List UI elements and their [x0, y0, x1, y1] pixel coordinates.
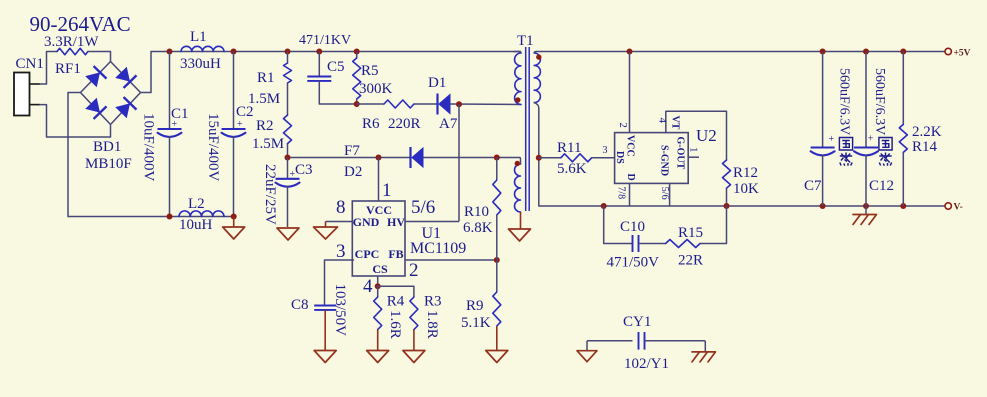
wire U2 pin2 vertical	[629, 52, 631, 133]
resistor R5 wire top	[356, 52, 358, 59]
wire R11 lead	[539, 157, 561, 159]
capacitor C1 wire bottom	[169, 136, 171, 217]
svg-text:DS: DS	[614, 151, 625, 164]
transistor U2 box	[615, 133, 689, 184]
svg-text:1.8R: 1.8R	[424, 310, 440, 339]
wire CY1 left	[587, 340, 633, 342]
ground symbol under C2 stub	[233, 217, 235, 228]
svg-text:C8: C8	[291, 297, 309, 313]
wire CY1 right	[645, 340, 706, 342]
junction dot R14 bottom	[900, 203, 906, 209]
capacitor C7 wire bottom	[822, 155, 824, 207]
chassis ground CY1 right	[692, 352, 716, 362]
resistor R4 wire bottom	[377, 330, 379, 351]
svg-text:+5V: +5V	[954, 49, 971, 59]
svg-text:C5: C5	[327, 59, 345, 75]
svg-text:330uH: 330uH	[180, 56, 221, 72]
junction dot FB node	[494, 257, 500, 263]
capacitor C1	[158, 128, 182, 130]
wire CS to R3	[378, 286, 414, 297]
resistor R3	[410, 297, 418, 330]
transformer T1 core	[525, 47, 527, 211]
svg-text:10uH: 10uH	[179, 217, 213, 233]
junction dot D1 out	[456, 101, 462, 107]
svg-text:2: 2	[617, 122, 629, 128]
svg-text:102/Y1: 102/Y1	[624, 356, 669, 372]
svg-text:D1: D1	[428, 75, 446, 91]
capacitor C2 wire bottom	[233, 136, 235, 217]
svg-text:471/50V: 471/50V	[607, 255, 660, 271]
capacitor C10	[632, 235, 634, 252]
capacitor C5	[307, 76, 331, 78]
svg-text:15uF/400V: 15uF/400V	[205, 113, 221, 182]
svg-text:560uF/6.3V: 560uF/6.3V	[872, 68, 887, 135]
junction dot C5 top	[316, 49, 322, 55]
svg-text:3.3R/1W: 3.3R/1W	[44, 34, 99, 50]
junction dot L2 left	[167, 214, 173, 220]
resistor R5	[353, 58, 361, 99]
resistor R9 wire bottom	[496, 326, 498, 351]
wire C10 branch	[604, 206, 633, 244]
svg-text:R15: R15	[678, 225, 703, 241]
wire U2 pin7/8 vertical	[629, 183, 631, 206]
label C12 value CJK solid	[879, 138, 892, 151]
transformer T1 secondary bottom lead	[534, 103, 539, 206]
junction dot R10 top	[494, 155, 500, 161]
junction dot C2 top	[231, 49, 237, 55]
wire D2 to aux winding	[424, 157, 521, 159]
junction dot R5 bottom	[354, 101, 360, 107]
wire U2 pin5/6 vertical	[669, 183, 671, 206]
svg-text:R1: R1	[257, 70, 275, 86]
capacitor C7 wire top	[822, 52, 824, 148]
op-amp U1 box	[352, 201, 405, 276]
capacitor C5 wire top	[318, 52, 320, 77]
capacitor C8	[314, 305, 336, 307]
wire U2 pin4 to R12 top	[666, 111, 727, 160]
capacitor C1 wire top	[169, 52, 171, 130]
svg-text:+: +	[290, 169, 296, 180]
capacitor C2	[222, 128, 246, 130]
svg-text:C3: C3	[295, 162, 313, 178]
capacitor C3 wire bottom	[287, 186, 289, 227]
resistor RF1	[57, 48, 88, 54]
wire C10 to R15	[639, 243, 666, 245]
svg-text:C7: C7	[804, 178, 822, 194]
wire R15 up to rail	[700, 206, 727, 244]
svg-text:5/6: 5/6	[659, 187, 670, 200]
svg-text:A7: A7	[439, 116, 458, 132]
svg-text:5.6K: 5.6K	[557, 161, 587, 177]
junction dot C7 bottom	[820, 203, 826, 209]
junction dot U1 VCC	[376, 155, 382, 161]
capacitor C7	[811, 146, 835, 148]
inductor L1	[181, 46, 224, 51]
wire U1 pin1 vertical	[378, 158, 380, 202]
svg-text:RF1: RF1	[55, 61, 81, 77]
junction dot R15 right	[724, 203, 730, 209]
svg-text:VCC: VCC	[625, 135, 636, 157]
svg-text:BD1: BD1	[93, 139, 121, 155]
svg-text:4: 4	[657, 118, 669, 124]
junction dot L2 right	[231, 214, 237, 220]
svg-text:L1: L1	[190, 29, 207, 45]
transformer T1 aux bottom lead	[520, 212, 522, 229]
svg-text:1.6R: 1.6R	[387, 310, 403, 339]
junction dot R5 top	[354, 49, 360, 55]
svg-text:C12: C12	[869, 178, 894, 194]
junction dot R11 tap	[536, 155, 542, 161]
transformer T1 secondary top lead	[534, 52, 542, 54]
terminal +5V	[945, 48, 951, 54]
capacitor C12	[854, 146, 878, 148]
resistor R11	[561, 154, 592, 162]
resistor R4 wire top	[377, 286, 379, 297]
svg-text:1.5M: 1.5M	[248, 91, 280, 107]
wire CN1 pin2 to bridge bottom	[40, 105, 111, 137]
junction dot F7 at R2	[285, 155, 291, 161]
wire V- rail	[539, 205, 945, 207]
capacitor C12 wire bottom	[865, 155, 867, 207]
svg-text:4: 4	[363, 276, 373, 297]
svg-text:5/6: 5/6	[411, 197, 435, 218]
svg-text:MC1109: MC1109	[410, 240, 466, 257]
svg-text:S-GND: S-GND	[659, 145, 670, 176]
svg-text:220R: 220R	[388, 116, 421, 132]
junction dot R14 top	[900, 49, 906, 55]
transformer T1 aux top lead	[519, 158, 522, 165]
ground symbol under R4	[367, 351, 389, 363]
transformer T1 primary winding	[515, 53, 521, 105]
resistor R6	[384, 100, 414, 108]
terminal V-	[945, 203, 951, 209]
svg-text:R11: R11	[557, 140, 581, 156]
svg-text:560uF/6.3V: 560uF/6.3V	[837, 68, 852, 135]
wire top rail primary	[151, 51, 521, 53]
bridge BD1 diamond	[81, 62, 141, 125]
svg-text:CN1: CN1	[16, 56, 44, 72]
resistor R5 wire bottom	[356, 99, 358, 104]
junction dot C12 bottom	[863, 203, 869, 209]
svg-text:2: 2	[409, 260, 419, 281]
svg-text:MB10F: MB10F	[85, 156, 132, 172]
svg-text:R4: R4	[387, 294, 405, 310]
svg-text:2.2K: 2.2K	[912, 124, 942, 140]
junction dot C12 top	[863, 49, 869, 55]
wire RF1 to bridge top	[88, 52, 111, 62]
transformer T1 aux polarity dot	[515, 161, 520, 166]
wire top rail secondary	[542, 51, 945, 53]
wire chassis stub	[865, 206, 867, 215]
resistor R12 wire bottom	[726, 188, 728, 206]
resistor R10 wire top	[496, 158, 498, 181]
resistor R1	[284, 63, 292, 83]
bridge diode top-left	[85, 66, 107, 88]
svg-text:6.8K: 6.8K	[463, 220, 493, 236]
svg-text:300K: 300K	[359, 81, 393, 97]
ground symbol CY1 left	[577, 351, 597, 362]
svg-text:L2: L2	[188, 196, 205, 212]
diode D2	[409, 147, 411, 168]
transformer T1 primary top lead	[514, 52, 521, 54]
svg-text:10K: 10K	[733, 181, 759, 197]
svg-text:V-: V-	[954, 203, 963, 213]
svg-text:CS: CS	[372, 262, 388, 276]
wire HV to U1 pin5/6	[406, 221, 460, 223]
junction dot C10 left	[601, 203, 607, 209]
ground symbol U1 pin8	[314, 227, 338, 239]
svg-text:7/8: 7/8	[616, 186, 627, 199]
svg-text:G-OUT: G-OUT	[675, 137, 686, 170]
junction dot CS node	[375, 283, 381, 289]
resistor R1 wire	[287, 52, 289, 64]
svg-text:CY1: CY1	[623, 314, 651, 330]
wire U1 pin3 cpc	[325, 260, 354, 306]
bridge diode top-right	[115, 66, 137, 88]
capacitor C5 wire bottom	[319, 81, 356, 104]
wire U2 pin1 stub	[688, 156, 699, 158]
svg-text:F7: F7	[344, 143, 360, 159]
svg-text:D: D	[625, 174, 636, 181]
svg-text:+: +	[172, 119, 178, 130]
wire R2 to F7 node	[287, 144, 289, 158]
ground symbol under aux winding	[509, 229, 531, 241]
wire U1 pin8 gnd	[326, 221, 353, 223]
resistor R14 wire bottom	[902, 152, 904, 206]
chassis ground under C12	[853, 215, 877, 225]
connector CN1 pin2 stub	[30, 104, 41, 106]
wire D1 to primary	[450, 103, 521, 106]
wire CY1 left gnd stub	[586, 341, 588, 351]
capacitor C12 wire top	[865, 52, 867, 148]
transformer T1 secondary polarity dot	[536, 54, 541, 59]
capacitor C3	[276, 178, 300, 180]
svg-text:R12: R12	[733, 165, 758, 181]
svg-text:1.5M: 1.5M	[252, 136, 284, 152]
svg-text:R10: R10	[464, 204, 489, 220]
resistor R14	[899, 124, 907, 152]
svg-text:90-264VAC: 90-264VAC	[30, 12, 131, 36]
wire rail to +5V terminal	[941, 51, 943, 53]
svg-text:R9: R9	[466, 298, 484, 314]
wire bridge right corner to top rail	[141, 52, 152, 93]
ground symbol under C3	[277, 228, 299, 240]
wire R6 to D1	[414, 103, 437, 105]
svg-text:8: 8	[336, 197, 346, 218]
svg-text:+: +	[237, 119, 243, 130]
svg-text:HV: HV	[387, 215, 405, 229]
resistor R14 wire top	[902, 52, 904, 125]
capacitor C3 wire top	[287, 158, 289, 179]
wire bridge left corner down to ground rail	[68, 93, 81, 217]
ground symbol U1 pin8 stub	[325, 222, 327, 228]
svg-text:22uF/25V: 22uF/25V	[262, 164, 278, 225]
svg-text:R5: R5	[361, 63, 379, 79]
transformer T1 primary polarity dot	[515, 97, 520, 102]
svg-text:FB: FB	[388, 247, 403, 261]
resistor R3 wire bottom	[413, 330, 415, 351]
resistor R10	[493, 180, 501, 215]
svg-text:103/50V: 103/50V	[332, 284, 348, 337]
wire R5 to R6	[357, 103, 384, 105]
wire R11 to U2 pin3	[592, 157, 615, 159]
svg-text:3: 3	[336, 241, 346, 262]
svg-text:GND: GND	[353, 215, 380, 229]
svg-text:T1: T1	[517, 33, 534, 49]
svg-text:1: 1	[382, 180, 392, 201]
wire F7 node	[288, 157, 411, 159]
ground symbol under R3	[403, 351, 425, 363]
svg-text:471/1KV: 471/1KV	[299, 33, 351, 48]
svg-text:+: +	[829, 134, 835, 145]
ground symbol under C8	[314, 351, 336, 363]
diode D1	[436, 94, 438, 115]
wire FB to R9	[496, 260, 498, 292]
bridge diode bottom-left	[85, 97, 107, 119]
resistor R12	[723, 160, 731, 188]
svg-text:CPC: CPC	[355, 247, 380, 261]
wire U1 pin2 fb	[406, 259, 497, 261]
resistor R4	[374, 297, 382, 330]
svg-text:3: 3	[603, 145, 608, 156]
resistor R10 wire bottom	[496, 215, 498, 260]
junction dot U2 VCC	[627, 49, 633, 55]
wire U1 pin4 cs	[377, 276, 379, 286]
svg-text:C10: C10	[620, 219, 645, 235]
capacitor CY1	[638, 332, 640, 350]
svg-text:R6: R6	[362, 116, 380, 132]
resistor R1-R2 wire	[287, 83, 289, 115]
bridge diode bottom-right	[115, 97, 137, 119]
inductor L2	[179, 211, 224, 217]
ground symbol under R9	[486, 351, 508, 363]
svg-text:VT: VT	[670, 116, 681, 130]
wire CN1 pin1 to RF1	[40, 52, 57, 85]
svg-text:R14: R14	[912, 139, 938, 155]
svg-text:R3: R3	[424, 294, 442, 310]
connector CN1 body	[14, 73, 30, 116]
wire ground rail	[68, 216, 234, 218]
junction dot C1 top	[167, 49, 173, 55]
resistor R9	[493, 292, 501, 326]
capacitor C8 wire bottom	[324, 310, 326, 351]
wire HV node vertical	[458, 104, 460, 221]
junction dot C7 top	[820, 49, 826, 55]
svg-text:D2: D2	[344, 164, 362, 180]
junction dot R1 top	[285, 49, 291, 55]
transformer T1 aux winding	[515, 164, 521, 212]
connector CN1 pin1 stub	[30, 83, 41, 85]
resistor R2	[284, 115, 292, 144]
label C7 value CJK solid	[839, 138, 852, 151]
svg-text:1: 1	[688, 147, 700, 153]
svg-text:5.1K: 5.1K	[461, 315, 491, 331]
svg-text:10uF/400V: 10uF/400V	[141, 113, 157, 182]
resistor R15	[666, 240, 700, 248]
ground symbol under C2	[223, 227, 245, 239]
capacitor C2 wire top	[233, 52, 235, 130]
wire CY1 right gnd stub	[704, 341, 706, 352]
svg-text:U2: U2	[696, 126, 717, 145]
svg-text:22R: 22R	[678, 253, 703, 269]
svg-text:R2: R2	[256, 118, 274, 134]
transformer T1 secondary winding	[534, 53, 540, 103]
